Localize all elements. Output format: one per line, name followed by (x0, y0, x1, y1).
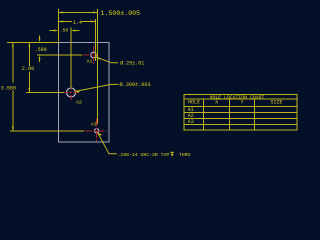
hole location chart (184, 94, 297, 129)
svg-text:A3: A3 (188, 119, 194, 125)
svg-text:.50: .50 (60, 27, 69, 33)
svg-text:X: X (215, 100, 218, 106)
dimension .50 (50, 27, 80, 33)
extension line hole A2 (vertical) (70, 28, 72, 88)
extension line hole A3 (vertical, long) (97, 9, 99, 124)
svg-text:SIZE: SIZE (270, 100, 282, 106)
depth symbol (170, 152, 174, 156)
svg-text:2.00: 2.00 (22, 66, 34, 72)
extension line hole A2 (horizontal) (26, 92, 64, 94)
extension line part top edge (horizontal) (7, 42, 59, 44)
svg-text:.500: .500 (35, 47, 47, 53)
svg-text:3.500: 3.500 (1, 85, 17, 91)
centerline A2 (63, 84, 80, 102)
centerline A3 (85, 119, 107, 142)
hole A2 (67, 88, 76, 97)
dimension 1.500±.005 (59, 10, 141, 17)
dimension 2.00 (vertical) (22, 43, 34, 93)
dimension 3.500 (vertical) (1, 43, 17, 131)
svg-text:.190-24 UNC-2B TAP: .190-24 UNC-2B TAP (118, 152, 170, 158)
svg-text:THRU: THRU (179, 152, 191, 158)
svg-text:Ø.25±.01: Ø.25±.01 (120, 60, 144, 67)
extension line hole A1 (vertical) (95, 19, 97, 61)
svg-text:1.4: 1.4 (73, 20, 82, 26)
dimension 1.4 (59, 20, 96, 26)
svg-text:Ø.300±.003: Ø.300±.003 (120, 81, 151, 88)
leader hole A2 (75, 81, 150, 93)
part outline (59, 43, 110, 143)
hole A3 (95, 129, 99, 133)
leader hole A3 / tap note (98, 133, 191, 158)
centerline A1 (84, 46, 99, 64)
dimension .500 (vertical) (35, 36, 47, 63)
extension line hole A3 (horizontal) (10, 130, 84, 132)
hole A1 (91, 52, 97, 58)
svg-text:A2: A2 (76, 99, 82, 105)
svg-text:Y: Y (240, 100, 243, 106)
svg-text:1.500±.005: 1.500±.005 (101, 10, 141, 17)
svg-text:HOLE: HOLE (188, 100, 200, 106)
svg-text:A3: A3 (91, 121, 97, 127)
extension line hole A1 (horizontal) (37, 54, 83, 56)
extension line part left edge (vertical) (58, 9, 60, 42)
leader hole A1 (96, 57, 144, 66)
svg-text:A1: A1 (87, 58, 93, 64)
